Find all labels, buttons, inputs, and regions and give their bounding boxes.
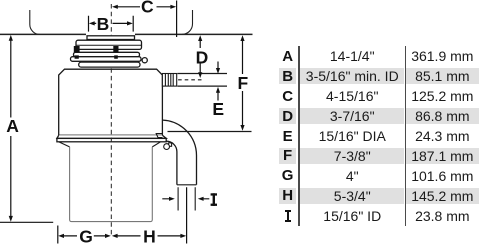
dim A bottom ref line bbox=[0, 221, 53, 223]
dim D line bbox=[199, 41, 201, 73]
dim B line bbox=[94, 22, 128, 24]
sink left wall bbox=[30, 10, 40, 34]
dishwasher inlet nipple bbox=[162, 74, 227, 87]
I left arrow bbox=[198, 197, 204, 201]
A up arrow bbox=[9, 35, 13, 41]
dim E arrows shafts bbox=[217, 62, 219, 101]
F up arrow bbox=[240, 35, 244, 41]
H right arrow bbox=[180, 234, 186, 238]
F down arrow bbox=[240, 125, 244, 131]
mounting assembly bbox=[71, 36, 148, 67]
dimension labels bbox=[6, 0, 248, 244]
I right arrow bbox=[169, 197, 175, 201]
disposer upper body bbox=[57, 69, 172, 149]
body lip bbox=[57, 135, 166, 138]
upper mounting ring bbox=[76, 40, 142, 49]
A down arrow bbox=[9, 216, 13, 222]
sink right wall bbox=[182, 10, 193, 34]
support ring bbox=[71, 57, 142, 62]
G left arrow bbox=[58, 234, 64, 238]
B left arrow bbox=[89, 21, 95, 25]
discharge elbow inner bbox=[166, 141, 177, 185]
mounting screw right bbox=[113, 46, 118, 59]
E down arrow bbox=[216, 68, 220, 74]
svg-text:D: D bbox=[196, 47, 209, 67]
dim B ext lines bbox=[89, 16, 134, 32]
discharge centerline reference bbox=[168, 131, 252, 133]
svg-text:G: G bbox=[79, 227, 93, 244]
vertical centerline (dashed) bbox=[110, 4, 112, 236]
lip to shell steps bbox=[59, 142, 161, 147]
lower mounting ring bbox=[74, 52, 140, 56]
pipe end bbox=[177, 184, 197, 186]
svg-text:F: F bbox=[237, 73, 248, 93]
gasket ring bbox=[79, 62, 140, 67]
table column separator lines bbox=[298, 46, 300, 226]
mounting screw left bbox=[74, 46, 119, 59]
B right arrow bbox=[127, 21, 133, 25]
pipe ID lines bbox=[178, 187, 195, 210]
dim F line bbox=[242, 41, 244, 126]
discharge elbow outer bbox=[163, 120, 252, 210]
dim G line bbox=[64, 235, 106, 237]
sink flange lip bbox=[87, 36, 135, 40]
svg-text:B: B bbox=[97, 14, 110, 34]
spec table rows bbox=[279, 48, 479, 64]
dim I arrow shafts bbox=[162, 198, 209, 200]
hook eye bbox=[142, 58, 147, 63]
dim A line bbox=[10, 40, 12, 217]
C left arrow bbox=[112, 5, 118, 9]
sink bottom line bbox=[0, 33, 253, 35]
arrowheads bbox=[9, 5, 245, 238]
lower shell bbox=[70, 147, 153, 222]
svg-text:A: A bbox=[6, 116, 19, 136]
dim G/H ext lines bbox=[58, 187, 187, 243]
D down arrow bbox=[198, 72, 202, 78]
H left arrow bbox=[112, 234, 118, 238]
svg-text:C: C bbox=[141, 0, 154, 16]
C right arrow bbox=[170, 5, 176, 9]
outlet boss bbox=[156, 134, 162, 138]
inlet OD extension lines bbox=[177, 74, 227, 87]
dimension lines bbox=[0, 1, 243, 244]
inlet centerline (dashed) bbox=[178, 79, 202, 81]
clamp screw nub bbox=[168, 143, 171, 146]
G right arrow bbox=[105, 234, 111, 238]
dim H line bbox=[117, 235, 181, 237]
svg-text:H: H bbox=[143, 227, 156, 244]
label I (with crossbars) bbox=[211, 193, 217, 206]
E up arrow bbox=[216, 87, 220, 93]
clamp screw bbox=[164, 144, 170, 150]
dim C ext line bbox=[176, 1, 178, 38]
svg-text:E: E bbox=[212, 99, 224, 119]
D up arrow bbox=[198, 35, 202, 41]
dim C line bbox=[117, 6, 171, 8]
